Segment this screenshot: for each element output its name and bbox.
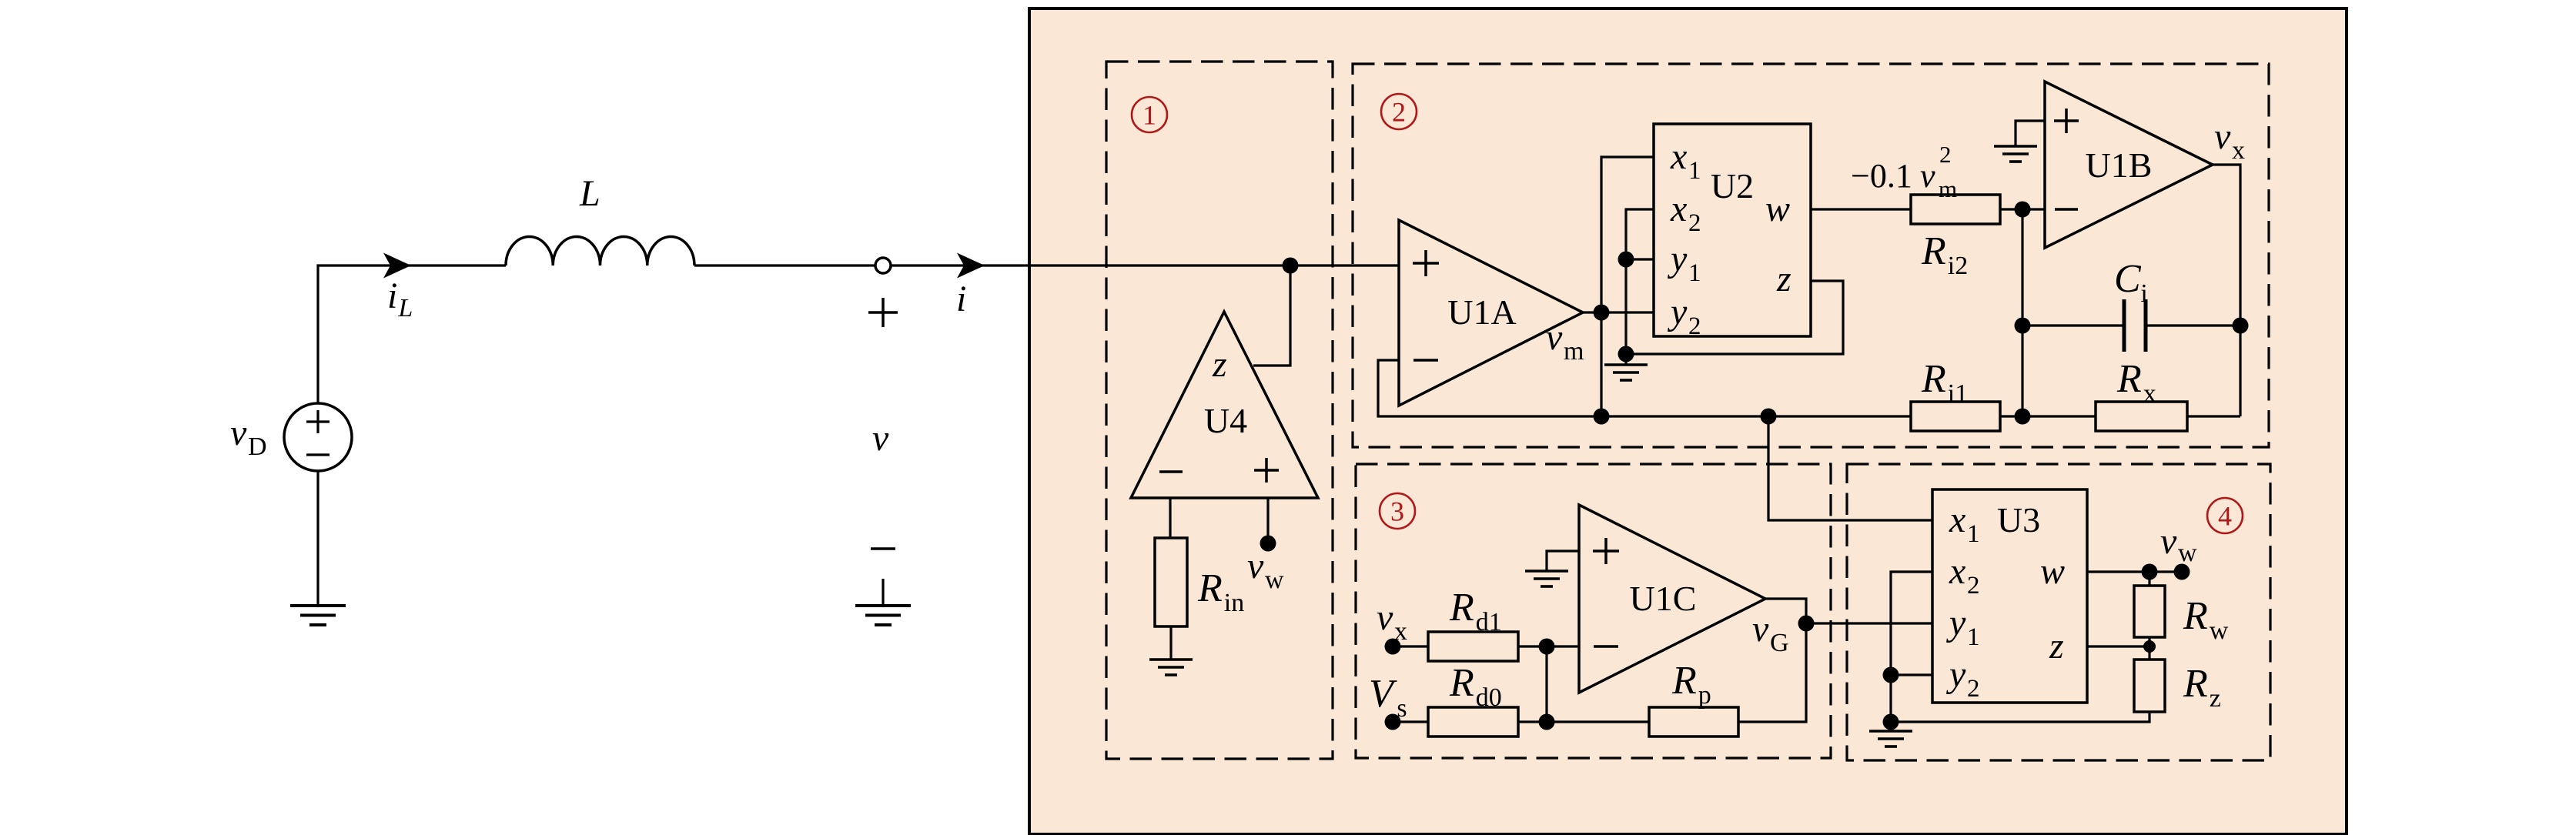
wire Rd1 to summing node — [1518, 645, 1579, 647]
svg-text:x: x — [1394, 617, 1407, 646]
U2 y1 stub — [1626, 258, 1654, 260]
svg-text:x: x — [2143, 379, 2156, 408]
svg-text:in: in — [1224, 589, 1244, 617]
inductor L — [506, 236, 694, 266]
node on input wire (junction to U4) — [1283, 258, 1299, 274]
resistor Rd1 — [1428, 632, 1518, 661]
svg-text:i: i — [387, 276, 397, 316]
svg-text:1: 1 — [1142, 100, 1156, 131]
multiplier U3 — [1932, 489, 2087, 703]
svg-text:y: y — [1667, 292, 1688, 332]
wire rail down to U3 x1 — [1768, 416, 1932, 520]
svg-text:C: C — [2114, 257, 2142, 301]
svg-text:1: 1 — [1967, 520, 1980, 548]
svg-text:R: R — [1671, 659, 1697, 703]
U1B plus input to ground — [2016, 121, 2045, 146]
U1A plus sign — [1413, 262, 1439, 265]
wire Rp to vG — [1738, 623, 1806, 722]
dashed box 1 — [1106, 62, 1333, 759]
svg-text:m: m — [1939, 175, 1957, 202]
circled number 2 — [1381, 94, 1417, 129]
svg-text:U2: U2 — [1711, 166, 1754, 205]
resistor Rd0 — [1428, 707, 1518, 736]
current arrow i — [957, 253, 985, 279]
summing node junction — [1539, 639, 1555, 655]
svg-text:v: v — [1247, 546, 1264, 586]
junction Rd0 — [1539, 714, 1555, 730]
port reference ground — [882, 579, 884, 606]
wire Rw to z node — [2148, 637, 2150, 660]
wire Rx to vx vertical — [2187, 415, 2240, 417]
junction x2-y1 — [1618, 252, 1634, 268]
terminal vx input — [1385, 639, 1401, 655]
svg-text:y: y — [1667, 239, 1688, 279]
chip body (shaded box) — [1029, 8, 2347, 834]
svg-text:R: R — [2183, 594, 2208, 638]
U4 plus input sign — [1254, 469, 1279, 472]
ground below source — [290, 604, 346, 607]
resistor Rp — [1649, 707, 1738, 736]
svg-text:U1A: U1A — [1447, 292, 1516, 332]
svg-text:v: v — [872, 418, 889, 459]
U4 inverting input wire — [1169, 498, 1171, 538]
terminal Vs input — [1385, 714, 1401, 730]
op-amp U1B — [2045, 82, 2213, 248]
svg-text:U1C: U1C — [1630, 579, 1697, 618]
junction Ci left — [2015, 318, 2031, 334]
current arrow i_L — [383, 253, 411, 279]
svg-text:4: 4 — [2218, 501, 2232, 532]
svg-text:v: v — [230, 412, 247, 453]
U2 z return wire — [1626, 281, 1843, 354]
svg-text:R: R — [1449, 661, 1474, 705]
svg-text:w: w — [2210, 616, 2229, 645]
resistor Rx — [2096, 402, 2187, 431]
U1B minus sign — [2055, 208, 2078, 211]
input port node (open terminal) — [875, 258, 891, 273]
svg-text:v: v — [1920, 157, 1935, 195]
U1C plus sign — [1593, 549, 1619, 553]
svg-text:v: v — [1377, 597, 1393, 638]
port voltage - label — [871, 547, 895, 550]
wire source to ground — [316, 471, 319, 606]
svg-text:x: x — [1670, 189, 1687, 229]
U4 minus input sign — [1159, 470, 1183, 473]
ground below Rin — [1149, 658, 1193, 661]
U4 non-inverting input wire to vw terminal — [1266, 498, 1269, 543]
svg-text:y: y — [1945, 603, 1966, 643]
svg-text:x: x — [1949, 499, 1965, 540]
wire junction down to U4 z output — [1253, 266, 1290, 366]
svg-text:w: w — [2178, 539, 2197, 567]
junction x2-y2 — [1883, 667, 1899, 683]
svg-text:v: v — [2160, 521, 2177, 562]
svg-text:L: L — [579, 173, 601, 214]
svg-text:2: 2 — [1688, 312, 1701, 340]
U3 w output wire — [2087, 570, 2182, 573]
voltage source vD — [284, 403, 352, 471]
junction Ri1-Rx-node — [2015, 409, 2031, 425]
svg-text:w: w — [1265, 566, 1284, 594]
dashed box 2 — [1353, 64, 2269, 447]
svg-text:R: R — [1921, 229, 1946, 273]
svg-text:2: 2 — [1967, 572, 1980, 600]
svg-text:w: w — [2040, 551, 2065, 592]
svg-text:1: 1 — [1967, 623, 1980, 651]
junction vm on rail — [1594, 409, 1610, 425]
node vG — [1798, 616, 1815, 632]
terminal vw — [1260, 536, 1276, 552]
multiplier U2 — [1654, 124, 1811, 336]
junction w node — [2142, 564, 2158, 580]
svg-text:x: x — [1670, 136, 1687, 177]
circled number 3 — [1380, 493, 1415, 529]
circled number 1 — [1132, 97, 1167, 132]
resistor Rin — [1155, 538, 1187, 626]
svg-text:U1B: U1B — [2086, 145, 2153, 185]
op-amp U1C — [1579, 505, 1765, 693]
wire Rd0 to node — [1518, 720, 1649, 723]
dashed box 4 — [1847, 464, 2270, 760]
resistor Rz — [2134, 660, 2165, 712]
svg-text:2: 2 — [1939, 141, 1952, 168]
svg-text:v: v — [1752, 609, 1769, 650]
svg-text:2: 2 — [1688, 209, 1701, 237]
junction at U1B minus node — [2015, 202, 2031, 218]
svg-text:m: m — [1564, 337, 1584, 366]
junction Ci right — [2233, 318, 2249, 334]
node vm at U1A output — [1594, 305, 1610, 321]
svg-text:R: R — [1197, 566, 1223, 610]
dashed box 3 — [1356, 464, 1831, 758]
svg-text:x: x — [2232, 136, 2245, 165]
port voltage + label — [868, 311, 898, 314]
junction z-return — [1618, 346, 1634, 362]
svg-text:R: R — [1921, 357, 1946, 401]
U1C minus sign — [1594, 645, 1618, 648]
svg-text:R: R — [2116, 357, 2142, 401]
svg-text:w: w — [1765, 189, 1790, 229]
wire vm down to rail — [1600, 312, 1602, 416]
svg-text:z: z — [1776, 259, 1791, 299]
svg-text:1: 1 — [1688, 259, 1701, 287]
svg-text:3: 3 — [1390, 496, 1404, 527]
U2 w output wire — [1811, 208, 1911, 210]
wire vm up to U2 x1 — [1601, 157, 1654, 312]
capacitor Ci wire right — [2146, 324, 2240, 326]
wire node to Rx — [2000, 415, 2096, 417]
svg-text:d0: d0 — [1476, 683, 1502, 712]
svg-text:U4: U4 — [1204, 401, 1247, 440]
resistor Ri2 — [1911, 195, 2000, 224]
junction ground return — [1883, 714, 1899, 730]
svg-text:i: i — [2140, 279, 2147, 308]
wire Vs to Rd0 — [1393, 720, 1428, 723]
U2 x2 wire to ground vertical — [1626, 209, 1654, 354]
U1A feedback wire to output rail — [1378, 360, 1911, 416]
wire Ri2 to U1B minus — [2000, 208, 2045, 210]
resistor Rw — [2134, 586, 2165, 637]
svg-text:L: L — [397, 294, 413, 322]
junction z node — [2143, 640, 2156, 653]
wire Rz to ground return — [1891, 712, 2149, 722]
vertical integrator input node wire — [2021, 209, 2023, 416]
U3 z wire — [2087, 645, 2149, 647]
U1B output wire — [2213, 165, 2240, 416]
svg-text:x: x — [1949, 551, 1965, 592]
svg-text:d1: d1 — [1476, 608, 1502, 636]
U1C output wire — [1765, 599, 1806, 623]
U1B ground — [1994, 145, 2037, 148]
svg-text:2: 2 — [1392, 97, 1406, 128]
U3 y2 stub — [1891, 673, 1932, 676]
U3 ground — [1889, 722, 1892, 731]
svg-text:R: R — [1449, 586, 1474, 630]
U1C ground — [1525, 569, 1568, 573]
U1A minus sign — [1413, 359, 1438, 362]
capacitor Ci wire left — [2022, 324, 2124, 326]
svg-text:1: 1 — [1688, 157, 1701, 185]
svg-text:G: G — [1770, 629, 1789, 657]
capacitor Ci — [2123, 299, 2126, 352]
U1A output wire to U2 y2 — [1583, 311, 1654, 313]
svg-text:z: z — [2210, 684, 2221, 713]
svg-text:V: V — [1369, 672, 1397, 716]
U1B plus sign — [2054, 119, 2079, 122]
wire inductor to input port — [694, 264, 875, 266]
svg-text:p: p — [1698, 681, 1711, 710]
svg-text:v: v — [2214, 116, 2231, 157]
U1C plus input to ground — [1547, 551, 1579, 571]
svg-text:i2: i2 — [1948, 252, 1968, 280]
svg-text:D: D — [248, 433, 267, 461]
svg-text:i1: i1 — [1948, 379, 1968, 408]
svg-text:v: v — [1546, 317, 1563, 358]
op-amp U4 — [1131, 312, 1318, 498]
wire Rin to ground — [1169, 626, 1172, 660]
circled number 4 — [2207, 498, 2243, 533]
wire w to Rw — [2148, 572, 2150, 586]
wire vG to U3 y1 — [1806, 622, 1932, 624]
U2 ground — [1624, 354, 1627, 365]
svg-text:i: i — [956, 279, 966, 319]
svg-text:y: y — [1945, 654, 1966, 695]
junction rail to Ri1 — [1761, 409, 1777, 425]
svg-text:−0.1: −0.1 — [1851, 157, 1912, 195]
svg-text:2: 2 — [1967, 675, 1980, 703]
wire vx to Rd1 — [1393, 645, 1428, 647]
svg-text:s: s — [1397, 694, 1407, 723]
svg-text:R: R — [2183, 662, 2208, 706]
svg-text:z: z — [2049, 626, 2064, 666]
op-amp U1A — [1399, 220, 1583, 406]
vertical summing wire — [1545, 646, 1547, 722]
wire from source up and to inductor — [318, 266, 506, 403]
resistor Ri1 — [1911, 402, 2000, 431]
wire port node into chip — [891, 264, 1399, 266]
svg-text:U3: U3 — [1997, 500, 2040, 539]
svg-text:z: z — [1212, 344, 1227, 385]
terminal vw output — [2174, 564, 2190, 580]
U3 x2 wire to ground vertical — [1891, 572, 1932, 722]
